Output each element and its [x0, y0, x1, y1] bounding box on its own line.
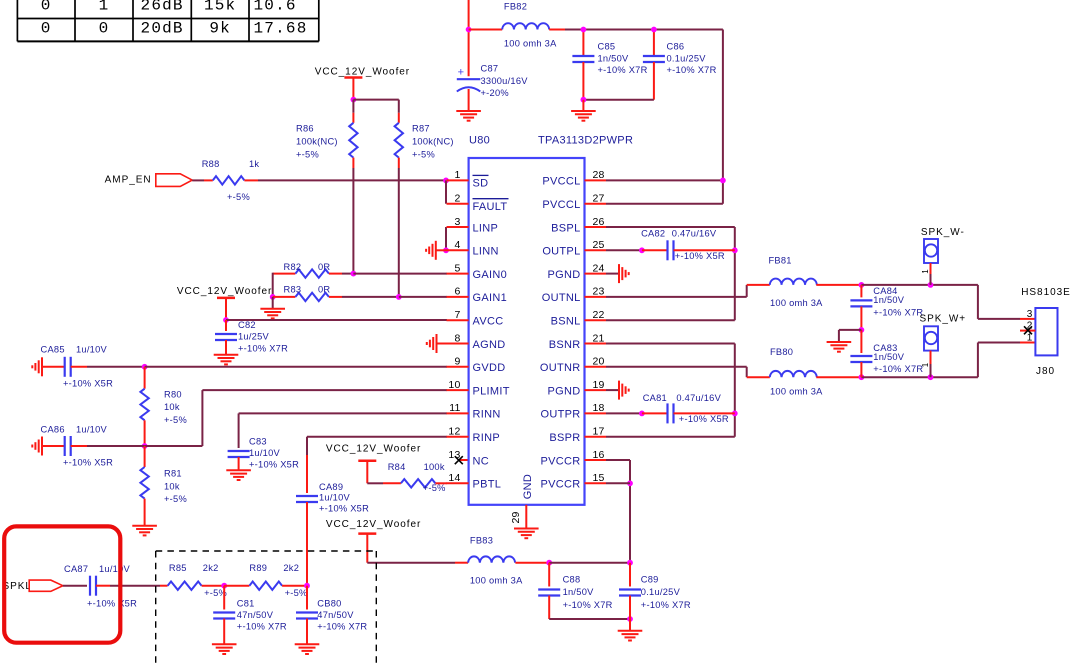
junction node R85/C81/R89: [221, 583, 227, 589]
svg-text:0R: 0R: [318, 285, 330, 295]
svg-text:23: 23: [593, 286, 605, 298]
svg-text:NC: NC: [473, 455, 490, 467]
svg-text:CA85: CA85: [41, 344, 65, 354]
svg-text:SPK_W-: SPK_W-: [921, 227, 965, 238]
ground below CA84/CA83 midpoint: [827, 342, 852, 352]
svg-text:+-10% X7R: +-10% X7R: [563, 600, 613, 610]
ground below C82: [214, 355, 239, 365]
svg-text:21: 21: [593, 332, 605, 344]
svg-text:VCC_12V_Woofer: VCC_12V_Woofer: [326, 444, 421, 455]
junction node PLIMIT divider: [142, 443, 148, 449]
svg-text:18: 18: [593, 402, 605, 414]
svg-text:VCC_12V_Woofer: VCC_12V_Woofer: [315, 67, 410, 78]
svg-text:HS8103E: HS8103E: [1021, 287, 1070, 298]
svg-text:R81: R81: [164, 468, 182, 478]
svg-text:+-10% X7R: +-10% X7R: [667, 65, 717, 75]
wire BSPL vertical to BSNL: [732, 227, 738, 320]
resistor R85 2k2: [168, 563, 227, 598]
ground below R82/R83: [260, 297, 285, 319]
svg-text:10k: 10k: [164, 402, 180, 412]
svg-text:29: 29: [510, 511, 522, 523]
svg-text:PGND: PGND: [548, 269, 581, 281]
svg-text:SPK_W+: SPK_W+: [920, 314, 967, 325]
wire CA87 to R85: [110, 585, 168, 587]
svg-text:GND: GND: [522, 474, 534, 499]
wire GVDD net to pin9: [145, 366, 447, 368]
capacitor CB80 47n/50V: [296, 586, 367, 645]
svg-text:CA87: CA87: [64, 564, 88, 574]
svg-text:15: 15: [593, 472, 605, 484]
svg-text:R84: R84: [388, 462, 406, 472]
IC U80 left pins 1-14 with stubs and numbers: [447, 169, 510, 490]
wire pin15 PVCCR right: [606, 482, 630, 484]
test point SPK_W+: [920, 314, 967, 378]
wire C85/C86 bottoms: [581, 97, 654, 103]
svg-text:OUTNL: OUTNL: [542, 292, 581, 304]
svg-text:PVCCL: PVCCL: [542, 199, 580, 211]
svg-text:22: 22: [593, 309, 605, 321]
power VCC_12V_Woofer (FB83): [326, 519, 421, 563]
wire pin25 OUTPL to CA82: [606, 247, 668, 253]
op-amp U1 body: IC U80 TPA3113D2PWPR: [469, 135, 634, 505]
svg-text:8: 8: [454, 332, 460, 344]
svg-text:GAIN1: GAIN1: [473, 292, 508, 304]
svg-text:19: 19: [593, 379, 605, 391]
svg-text:+-10% X7R: +-10% X7R: [238, 343, 288, 353]
resistor R83 0R: [273, 285, 342, 301]
wire pin3 LINP down: [445, 227, 447, 250]
svg-text:CA81: CA81: [643, 393, 667, 403]
svg-text:100k(NC): 100k(NC): [412, 136, 454, 146]
svg-text:OUTPR: OUTPR: [541, 409, 581, 421]
capacitor CA85 1u/10V: [41, 344, 114, 388]
svg-text:2: 2: [454, 193, 460, 205]
svg-text:+-10% X7R: +-10% X7R: [317, 622, 367, 632]
wire pin26 BSPL right: [606, 226, 735, 228]
svg-text:12: 12: [448, 426, 460, 438]
wire pin1 to pin2 FAULT: [445, 180, 447, 203]
svg-text:0: 0: [99, 19, 110, 37]
wire pin11 RINN to C83: [239, 413, 447, 448]
svg-text:C83: C83: [249, 436, 267, 446]
svg-text:+-10% X7R: +-10% X7R: [598, 65, 648, 75]
svg-text:1u/25V: 1u/25V: [238, 331, 270, 341]
capacitor CA84 1n/50V: [850, 285, 923, 330]
pin13 no-connect X: [455, 456, 469, 464]
wire FB82 to PVCCL vertical: [565, 30, 723, 204]
wire pin23 OUTNL to FB81: [606, 285, 770, 297]
ground below C87: [456, 111, 481, 121]
svg-text:+-10% X5R: +-10% X5R: [63, 379, 113, 389]
wire VCC to R87 top: [353, 100, 398, 113]
svg-text:CB80: CB80: [317, 598, 341, 608]
svg-text:PVCCR: PVCCR: [540, 455, 580, 467]
svg-text:16: 16: [593, 449, 605, 461]
svg-text:17: 17: [593, 426, 605, 438]
resistor R84 100k: [367, 462, 447, 493]
svg-text:FB81: FB81: [769, 255, 792, 265]
wire pin17 BSPR right: [606, 436, 735, 438]
svg-text:+: +: [458, 67, 465, 79]
wire pin20 OUTNR to FB80: [606, 367, 770, 377]
svg-text:1u/10V: 1u/10V: [76, 425, 108, 435]
wire pin18 OUTPR to CA81: [606, 411, 668, 417]
ferrite bead FB81: [769, 255, 862, 308]
wire R88 to pin1 SD: [258, 178, 449, 184]
capacitor C89 0.1u/25V: [619, 563, 691, 619]
ground at pin24 PGND (sideways): [606, 264, 629, 283]
wire pin21 BSNR right: [606, 343, 735, 345]
junction node LINN: [443, 247, 449, 253]
svg-text:PLIMIT: PLIMIT: [473, 385, 510, 397]
J80 pin3 number: [1027, 309, 1033, 320]
wire BSNR vertical to BSPR: [732, 344, 738, 437]
svg-text:47n/50V: 47n/50V: [317, 610, 354, 620]
svg-text:4: 4: [454, 239, 460, 251]
svg-text:100k: 100k: [424, 462, 445, 472]
svg-text:+-5%: +-5%: [164, 494, 187, 504]
wire AVCC to pin7: [226, 319, 447, 321]
svg-text:100 omh 3A: 100 omh 3A: [470, 575, 523, 585]
svg-text:BSNR: BSNR: [549, 339, 581, 351]
svg-text:PBTL: PBTL: [473, 479, 502, 491]
ferrite bead FB83: [468, 535, 549, 585]
resistor R88 1k: [192, 159, 259, 202]
svg-text:R89: R89: [249, 563, 267, 573]
capacitor C88 1n/50V: [538, 563, 612, 619]
svg-text:47n/50V: 47n/50V: [237, 610, 274, 620]
ground below C81: [212, 644, 237, 654]
svg-text:3300u/16V: 3300u/16V: [481, 76, 529, 86]
wire R82 left down to R83 left: [270, 273, 276, 300]
net flag SPKL: [3, 580, 63, 592]
svg-text:2k2: 2k2: [283, 563, 299, 573]
svg-text:1n/50V: 1n/50V: [873, 352, 905, 362]
wire CA86 to divider node: [87, 445, 145, 447]
svg-text:C87: C87: [481, 64, 499, 74]
svg-text:1n/50V: 1n/50V: [873, 295, 905, 305]
dashed box around R85/R89 filter: [156, 551, 377, 664]
svg-text:PVCCL: PVCCL: [542, 176, 580, 188]
svg-text:100 omh 3A: 100 omh 3A: [770, 386, 823, 396]
svg-text:6: 6: [454, 286, 460, 298]
svg-text:1: 1: [1027, 333, 1033, 344]
svg-text:SPKL: SPKL: [3, 581, 32, 592]
svg-text:3: 3: [454, 216, 460, 228]
svg-text:+-10% X7R: +-10% X7R: [873, 364, 923, 374]
svg-text:PVCCR: PVCCR: [540, 479, 580, 491]
J80 pin1 number: [1027, 333, 1033, 344]
resistor R80 10k: [140, 367, 187, 446]
svg-text:20: 20: [593, 356, 605, 368]
svg-text:0.1u/25V: 0.1u/25V: [667, 53, 707, 63]
svg-text:R83: R83: [284, 285, 302, 295]
svg-text:+-10% X5R: +-10% X5R: [319, 503, 369, 513]
svg-text:1k: 1k: [249, 159, 259, 169]
svg-text:CA86: CA86: [41, 425, 65, 435]
wire FB81 out to SPK_W- and J80 pin3: [859, 282, 1036, 319]
wire GAIN1 to pin6: [399, 296, 447, 298]
svg-text:100 omh 3A: 100 omh 3A: [770, 298, 823, 308]
svg-text:U80: U80: [469, 135, 490, 147]
svg-text:15k: 15k: [204, 0, 236, 14]
wire pin16 PVCCR right: [606, 459, 630, 461]
svg-text:CA89: CA89: [319, 482, 343, 492]
svg-text:+-10% X7R: +-10% X7R: [641, 600, 691, 610]
capacitor C86 0.1u/25V: [643, 27, 717, 100]
svg-text:RINN: RINN: [473, 409, 501, 421]
ground below C83: [226, 470, 251, 480]
power VCC_12V_Woofer (PBTL): [326, 444, 421, 484]
svg-text:+-10% X5R: +-10% X5R: [675, 251, 725, 261]
svg-text:10.6: 10.6: [254, 0, 297, 14]
svg-text:5: 5: [454, 262, 460, 274]
svg-text:17.68: 17.68: [254, 19, 308, 37]
capacitor CA83 1n/50V: [850, 330, 923, 377]
svg-text:FAULT: FAULT: [473, 201, 508, 213]
svg-text:+-10% X5R: +-10% X5R: [87, 598, 137, 608]
capacitor C83 1u/10V: [228, 436, 299, 470]
svg-text:J80: J80: [1036, 366, 1055, 377]
svg-text:0.1u/25V: 0.1u/25V: [641, 587, 681, 597]
svg-text:OUTPL: OUTPL: [542, 246, 580, 258]
svg-text:VCC_12V_Woofer: VCC_12V_Woofer: [177, 286, 272, 297]
ground below pin29: [514, 529, 539, 539]
svg-text:2k2: 2k2: [203, 563, 219, 573]
svg-text:1: 1: [921, 362, 930, 367]
svg-text:R85: R85: [169, 563, 187, 573]
svg-text:RINP: RINP: [473, 432, 500, 444]
svg-text:+-20%: +-20%: [481, 88, 509, 98]
svg-text:FB82: FB82: [504, 1, 527, 11]
svg-text:1n/50V: 1n/50V: [598, 53, 630, 63]
svg-text:24: 24: [593, 262, 605, 274]
power VCC_12V_Woofer (top): [315, 67, 410, 103]
svg-text:BSPL: BSPL: [551, 222, 580, 234]
ground at pin19 PGND (sideways): [606, 381, 629, 400]
svg-text:FB80: FB80: [770, 347, 793, 357]
table: gain settings: [17, 0, 318, 41]
svg-text:100k(NC): 100k(NC): [296, 136, 338, 146]
svg-text:CA82: CA82: [641, 228, 665, 238]
red highlight rounded rectangle: [4, 526, 120, 642]
ground at CA86 (sideways): [32, 437, 64, 456]
svg-text:+-5%: +-5%: [423, 483, 446, 493]
svg-text:R87: R87: [412, 123, 430, 133]
svg-text:AGND: AGND: [473, 339, 506, 351]
ground below R81: [132, 526, 157, 536]
IC U80 right pins 15-28 with stubs and numbers: [540, 169, 606, 490]
svg-text:C81: C81: [237, 598, 255, 608]
svg-text:10k: 10k: [164, 481, 180, 491]
svg-text:GAIN0: GAIN0: [473, 269, 508, 281]
svg-text:1u/10V: 1u/10V: [319, 492, 351, 502]
svg-text:1u/10V: 1u/10V: [249, 448, 281, 458]
svg-text:+-10% X5R: +-10% X5R: [249, 459, 299, 469]
svg-text:0R: 0R: [318, 262, 330, 272]
resistor R89 2k2: [224, 563, 307, 598]
ground below C89: [618, 619, 643, 641]
svg-text:1: 1: [454, 169, 460, 181]
capacitor C82 1u/25V: [215, 320, 288, 355]
resistor R86 100k(NC): [296, 100, 358, 168]
wire R86 to GAIN0 net: [352, 168, 354, 274]
svg-text:+-10% X5R: +-10% X5R: [679, 414, 729, 424]
wire R83 to GAIN1 junction: [342, 294, 402, 300]
svg-text:C88: C88: [563, 574, 581, 584]
svg-text:1u/10V: 1u/10V: [76, 344, 108, 354]
svg-text:C82: C82: [238, 320, 256, 330]
svg-text:+-5%: +-5%: [164, 415, 187, 425]
svg-text:R80: R80: [164, 389, 182, 399]
svg-text:+-5%: +-5%: [296, 149, 319, 159]
wire PVCCR vertical: [627, 460, 633, 563]
ground below CB80: [295, 644, 320, 654]
svg-text:OUTNR: OUTNR: [540, 362, 581, 374]
wire supply vertical into C87: [466, 0, 472, 76]
svg-text:LINP: LINP: [473, 222, 499, 234]
svg-text:1: 1: [921, 269, 930, 274]
wire R82 to GAIN0 junction: [342, 271, 356, 277]
resistor R81 10k: [140, 446, 187, 526]
svg-text:+-10% X5R: +-10% X5R: [63, 458, 113, 468]
svg-text:BSPR: BSPR: [549, 432, 580, 444]
svg-text:+-10% X7R: +-10% X7R: [237, 622, 287, 632]
svg-text:SD: SD: [473, 178, 489, 190]
svg-text:14: 14: [448, 472, 460, 484]
ground at pin4 LINN (sideways): [426, 241, 447, 260]
capacitor C81 47n/50V: [213, 586, 287, 645]
wire divider to pin10 PLIMIT: [145, 390, 447, 446]
svg-text:BSNL: BSNL: [551, 316, 581, 328]
ground at CA85 (sideways): [32, 357, 64, 376]
svg-text:R86: R86: [296, 123, 314, 133]
resistor R82 0R: [273, 262, 342, 278]
svg-text:+-10% X7R: +-10% X7R: [873, 308, 923, 318]
power VCC_12V_Woofer (AVCC): [177, 286, 272, 323]
svg-text:27: 27: [593, 193, 605, 205]
svg-text:AMP_EN: AMP_EN: [105, 175, 152, 186]
svg-text:0: 0: [41, 19, 52, 37]
svg-text:26: 26: [593, 216, 605, 228]
wire VCC to FB83: [367, 562, 468, 564]
svg-text:7: 7: [454, 309, 460, 321]
capacitor CA87 1u/10V: [63, 564, 137, 609]
svg-text:3: 3: [1027, 309, 1033, 320]
wire midpoint to ground: [839, 330, 862, 342]
svg-text:LINN: LINN: [473, 246, 499, 258]
svg-text:1: 1: [99, 0, 110, 14]
ground below C85: [571, 100, 596, 121]
wire pin12 RINP to CA89: [307, 437, 447, 493]
svg-text:AVCC: AVCC: [473, 316, 504, 328]
junction node CA84/CA83 midpoint: [859, 327, 865, 333]
svg-text:13: 13: [448, 449, 460, 461]
svg-text:0.47u/16V: 0.47u/16V: [676, 393, 721, 403]
resistor R87 100k(NC): [395, 113, 454, 168]
svg-text:C89: C89: [641, 574, 659, 584]
svg-text:TPA3113D2PWPR: TPA3113D2PWPR: [538, 135, 633, 147]
IC pin29 GND: [510, 474, 534, 529]
svg-text:FB83: FB83: [470, 535, 493, 545]
J80 pin2 no-connect: [1020, 321, 1035, 335]
wire pin28 PVCCL to supply: [606, 178, 726, 184]
svg-text:R88: R88: [202, 159, 220, 169]
wire CA85 to GVDD net: [87, 364, 148, 370]
capacitor CA82 0.47u/16V: [641, 228, 735, 261]
svg-text:20dB: 20dB: [141, 19, 184, 37]
wire R87 to GAIN1 net: [398, 168, 400, 297]
ferrite bead FB80: [770, 347, 862, 396]
wire FB80 out to SPK_W+ and J80 pin1: [859, 343, 1036, 381]
wire GAIN0 to pin5: [353, 273, 447, 275]
svg-text:0.47u/16V: 0.47u/16V: [672, 228, 717, 238]
svg-text:R82: R82: [284, 262, 302, 272]
svg-text:10: 10: [448, 379, 460, 391]
svg-text:1u/10V: 1u/10V: [99, 564, 131, 574]
wire pin27 PVCCL to supply: [606, 203, 723, 205]
svg-text:+-5%: +-5%: [227, 192, 250, 202]
svg-text:28: 28: [593, 169, 605, 181]
svg-text:1n/50V: 1n/50V: [563, 587, 595, 597]
junction node R89/CB80/CA89: [304, 583, 310, 589]
ferrite bead FB82: [469, 1, 565, 48]
test point SPK_W-: [921, 227, 965, 285]
svg-text:VCC_12V_Woofer: VCC_12V_Woofer: [326, 519, 421, 530]
svg-text:GVDD: GVDD: [473, 362, 506, 374]
svg-text:11: 11: [449, 402, 460, 414]
wire pin22 BSNL right: [606, 319, 735, 321]
wire C88 bottom to C89 bottom: [549, 616, 633, 622]
ground at pin8 AGND (sideways): [427, 334, 447, 353]
svg-text:0: 0: [41, 0, 52, 14]
svg-text:25: 25: [593, 239, 605, 251]
capacitor C87 (polarized 3300u/16V): [457, 64, 528, 112]
svg-text:9: 9: [454, 356, 460, 368]
capacitor CA86 1u/10V: [41, 425, 114, 468]
svg-text:9k: 9k: [209, 19, 231, 37]
svg-text:C85: C85: [598, 41, 616, 51]
svg-text:C86: C86: [667, 41, 685, 51]
svg-text:100 omh 3A: 100 omh 3A: [504, 38, 557, 48]
capacitor C85 1n/50V: [572, 27, 647, 100]
capacitor CA89 1u/10V: [296, 482, 369, 585]
svg-text:26dB: 26dB: [141, 0, 184, 14]
connector J80 HS8103E: [1021, 287, 1070, 377]
capacitor CA81 0.47u/16V: [643, 393, 735, 424]
svg-text:+-5%: +-5%: [412, 149, 435, 159]
net flag AMP_EN: [105, 174, 193, 187]
svg-text:+-5%: +-5%: [285, 588, 308, 598]
svg-text:PGND: PGND: [548, 385, 581, 397]
svg-text:2: 2: [1027, 321, 1033, 332]
wire FB83 out to PVCCR net: [546, 560, 633, 566]
